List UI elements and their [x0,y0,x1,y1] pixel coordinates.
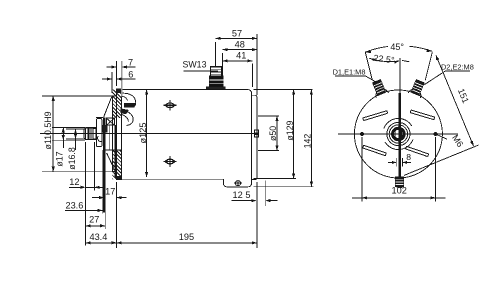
svg-text:17: 17 [105,187,115,197]
svg-text:7: 7 [128,57,133,67]
svg-text:ø125: ø125 [138,123,148,144]
svg-text:ø50: ø50 [268,126,278,141]
svg-text:102: 102 [392,185,407,195]
svg-text:57: 57 [232,28,242,38]
svg-text:27: 27 [89,215,99,225]
svg-text:45°: 45° [390,42,404,52]
svg-text:D1,E1:M8: D1,E1:M8 [333,67,366,76]
svg-text:ø16.8: ø16.8 [67,147,77,170]
svg-text:6: 6 [128,70,133,80]
svg-text:ø110.5H9: ø110.5H9 [43,111,53,149]
svg-text:ø129: ø129 [285,120,295,140]
svg-text:SW13: SW13 [183,60,207,70]
svg-text:43.4: 43.4 [89,232,107,242]
svg-text:D2,E2:M8: D2,E2:M8 [441,62,474,71]
svg-text:ø17: ø17 [55,151,65,166]
svg-text:142: 142 [303,134,313,149]
svg-text:8: 8 [406,152,411,162]
svg-text:195: 195 [179,232,194,242]
svg-text:12: 12 [69,177,79,187]
svg-text:23.6: 23.6 [65,200,83,210]
svg-text:48: 48 [235,40,245,50]
svg-text:41: 41 [236,51,246,61]
svg-text:12 5: 12 5 [233,190,251,200]
